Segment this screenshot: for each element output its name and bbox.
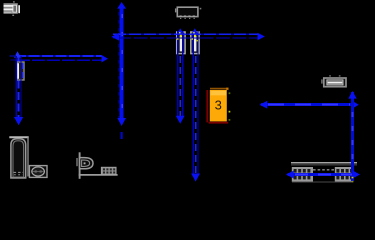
fuse F1 on wire W2: [17, 62, 24, 80]
tank auxiliary box with gauge: [29, 166, 47, 178]
arrow: W7 toward indicator (points left): [260, 101, 268, 109]
wire W2 vertical drop (left pair): [16, 56, 22, 118]
connector icon J1 (top-left): [4, 1, 21, 16]
arrow: W4 into riser W3 (points left): [111, 33, 119, 41]
terminal strip module (bottom-right): [291, 163, 357, 182]
wire W9 through terminal strip (bottom-right): [288, 173, 358, 176]
arrow: W8 top (points up): [348, 91, 356, 99]
capacitor C2 body: [191, 32, 199, 54]
arrow: W5 into bus (points up): [177, 28, 184, 34]
arrow: W6 into bus (points up): [191, 28, 198, 34]
drop W6 from bus (right capacitor branch, long): [193, 31, 198, 174]
load indicator box "3" (orange): [207, 88, 230, 123]
riser W3 (thick vertical at x≈121): [119, 5, 122, 119]
arrow: W9 left end (points left): [286, 171, 294, 179]
arrow: W6 bottom (points down): [191, 174, 200, 182]
arrow: W7 past riser W8 (points right): [353, 101, 359, 108]
wall socket icon (right): [322, 75, 346, 87]
drop W5 from bus (left capacitor branch): [178, 31, 183, 117]
node dots (yellow) at C1 top: [180, 35, 182, 37]
arrow: W3 top (points up): [117, 2, 126, 9]
arrow: W2 down toward tank: [14, 117, 23, 125]
wire stub left of bend (dark): [10, 55, 17, 57]
junction box (top-center): [176, 7, 202, 18]
node dots (yellow) at W8/W9 junction: [352, 177, 354, 179]
bus W4 horizontal pair (center): [113, 34, 258, 38]
arrow: W4 right end (points right): [258, 33, 265, 40]
corner node marker: up arrow at W1/W2 bend: [14, 51, 21, 57]
wire W1 horizontal run (top-left pair): [16, 56, 102, 60]
pump P1 (bottom-center): [77, 152, 118, 179]
capacitor C1 body: [177, 32, 185, 54]
svg-text:3: 3: [215, 97, 222, 112]
arrow: W1 into riser W2 (points right): [102, 55, 109, 62]
wire stub below W3 arrow: [120, 132, 122, 139]
boiler tank (bottom-left): [9, 137, 28, 178]
arrow: W3 bottom (points down): [117, 118, 126, 126]
riser W8 vertical (right): [351, 92, 354, 181]
node dots (yellow) at C2 top: [194, 35, 196, 37]
arrow: W9 right end (points right): [352, 170, 360, 178]
arrow: W5 bottom (points down): [176, 116, 185, 124]
wire W7 horizontal (right, to riser W8): [261, 103, 354, 106]
